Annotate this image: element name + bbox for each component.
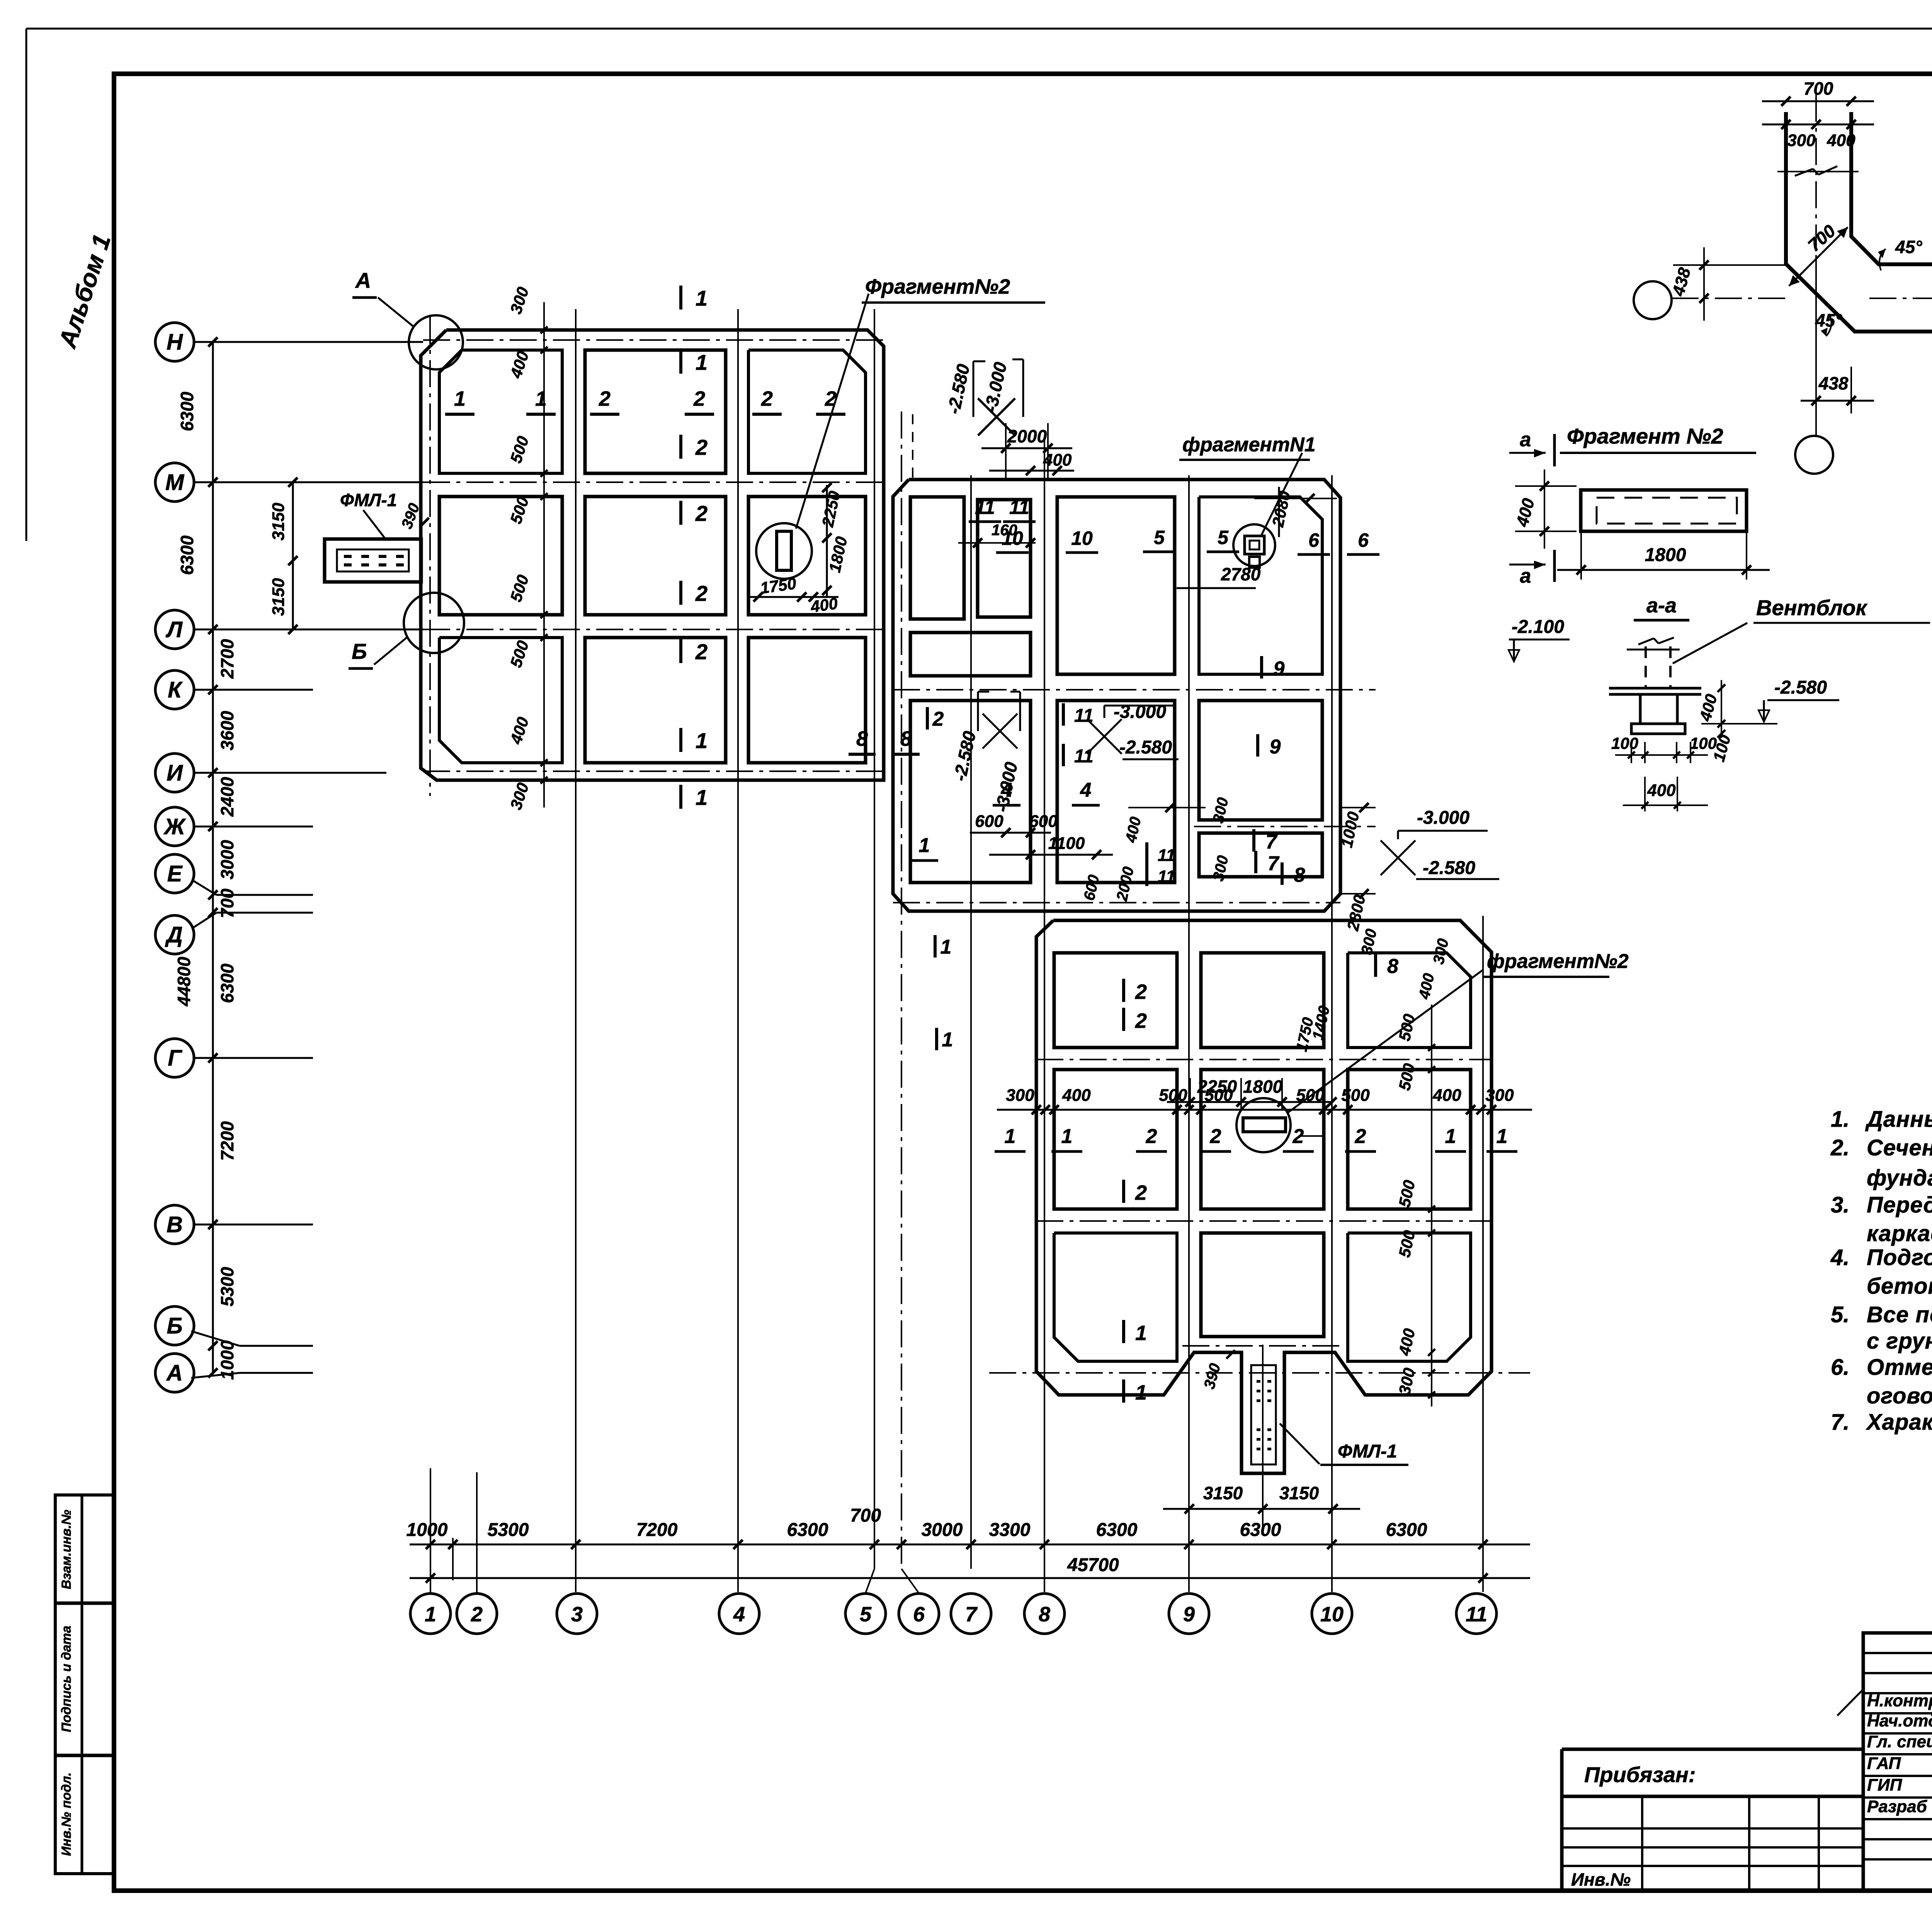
svg-text:Б: Б xyxy=(352,639,367,663)
svg-text:2: 2 xyxy=(695,639,707,664)
svg-text:5300: 5300 xyxy=(217,1267,237,1306)
svg-text:700: 700 xyxy=(850,1505,881,1526)
svg-text:2: 2 xyxy=(1146,1125,1157,1148)
svg-text:1: 1 xyxy=(1135,1381,1147,1404)
svg-text:1: 1 xyxy=(696,785,707,810)
svg-text:400: 400 xyxy=(1432,1086,1461,1105)
svg-text:а: а xyxy=(1520,565,1531,587)
svg-text:300: 300 xyxy=(1787,131,1816,150)
svg-text:Б: Б xyxy=(167,1313,182,1338)
svg-text:45700: 45700 xyxy=(1067,1555,1119,1575)
svg-text:8: 8 xyxy=(1039,1603,1050,1626)
svg-text:Сечения по фундаментам, спец: Сечения по фундаментам, спецификация эле… xyxy=(1867,1135,1932,1160)
svg-text:5: 5 xyxy=(860,1603,872,1626)
svg-text:1000: 1000 xyxy=(406,1520,448,1540)
svg-text:3: 3 xyxy=(571,1603,583,1626)
svg-text:600: 600 xyxy=(975,812,1003,831)
svg-text:438: 438 xyxy=(1818,373,1849,393)
svg-text:оговоренных.: оговоренных. xyxy=(1867,1383,1932,1408)
svg-text:6300: 6300 xyxy=(177,391,197,431)
svg-text:Гл. спец: Гл. спец xyxy=(1867,1732,1932,1751)
svg-text:6300: 6300 xyxy=(1386,1520,1427,1540)
svg-text:1800: 1800 xyxy=(1645,545,1686,565)
svg-text:2: 2 xyxy=(761,387,773,410)
svg-text:11: 11 xyxy=(1158,867,1175,886)
svg-text:К: К xyxy=(168,677,183,702)
svg-text:1: 1 xyxy=(1061,1125,1073,1148)
svg-text:2: 2 xyxy=(1293,1125,1304,1148)
svg-text:Л: Л xyxy=(165,617,183,642)
svg-text:с грунтом обмазать горячим: с грунтом обмазать горячим битумом за 2 … xyxy=(1867,1328,1932,1354)
svg-text:1: 1 xyxy=(940,936,952,958)
svg-text:Характеристики грунтов осно: Характеристики грунтов основания см АС01… xyxy=(1866,1410,1932,1435)
svg-text:1: 1 xyxy=(1135,1321,1147,1345)
svg-text:5: 5 xyxy=(1218,527,1229,548)
svg-text:500: 500 xyxy=(1159,1086,1187,1105)
svg-text:500: 500 xyxy=(1341,1086,1370,1105)
svg-text:10: 10 xyxy=(1071,527,1093,549)
svg-text:9: 9 xyxy=(1270,736,1281,758)
svg-text:фундаментов см. АС. 01-1 л.5: фундаментов см. АС. 01-1 л.5 xyxy=(1867,1165,1932,1190)
svg-text:3150: 3150 xyxy=(1279,1483,1319,1503)
svg-text:7: 7 xyxy=(965,1603,978,1626)
svg-text:5300: 5300 xyxy=(488,1520,529,1540)
svg-text:4.: 4. xyxy=(1830,1245,1849,1270)
svg-text:3.: 3. xyxy=(1831,1192,1849,1218)
svg-text:9: 9 xyxy=(1274,658,1285,680)
svg-text:1000: 1000 xyxy=(217,1340,237,1380)
svg-text:Г: Г xyxy=(168,1046,182,1071)
svg-text:2: 2 xyxy=(695,435,707,459)
svg-text:44800: 44800 xyxy=(174,957,194,1007)
svg-text:100: 100 xyxy=(1611,734,1638,752)
svg-text:4: 4 xyxy=(1080,779,1092,801)
svg-text:3150: 3150 xyxy=(269,503,288,541)
svg-text:160: 160 xyxy=(992,522,1017,539)
svg-text:8: 8 xyxy=(1294,864,1305,886)
svg-text:400: 400 xyxy=(1043,451,1072,469)
svg-text:400: 400 xyxy=(809,594,839,616)
svg-text:11: 11 xyxy=(975,497,995,518)
svg-text:Данный лист читать с АС. 0: Данный лист читать с АС. 01-1 л. 5,2 xyxy=(1865,1107,1932,1132)
svg-text:2: 2 xyxy=(932,708,944,730)
svg-text:2: 2 xyxy=(693,387,705,410)
svg-text:Фрагмент №2: Фрагмент №2 xyxy=(1567,424,1723,448)
svg-text:500: 500 xyxy=(1296,1086,1325,1105)
svg-text:Ж: Ж xyxy=(163,814,186,839)
svg-text:1800: 1800 xyxy=(1243,1077,1283,1097)
svg-text:3000: 3000 xyxy=(922,1520,963,1540)
svg-text:фрагментN1: фрагментN1 xyxy=(1182,434,1316,456)
svg-text:Нач.отд: Нач.отд xyxy=(1867,1711,1932,1730)
svg-text:5.: 5. xyxy=(1831,1302,1849,1327)
svg-text:7200: 7200 xyxy=(217,1121,237,1161)
svg-text:Инв.№ подл.: Инв.№ подл. xyxy=(59,1772,74,1856)
svg-text:ГИП: ГИП xyxy=(1867,1776,1903,1794)
svg-text:2: 2 xyxy=(1135,980,1147,1003)
svg-text:8: 8 xyxy=(856,727,868,750)
svg-text:1: 1 xyxy=(919,834,930,857)
svg-text:Перед бетонированием фундаме: Перед бетонированием фундаментов установ… xyxy=(1867,1192,1932,1218)
svg-text:-2.580: -2.580 xyxy=(1423,858,1475,878)
svg-text:2: 2 xyxy=(695,501,707,526)
svg-text:А: А xyxy=(355,268,371,293)
svg-text:2: 2 xyxy=(825,387,837,410)
svg-text:100: 100 xyxy=(1690,734,1717,752)
svg-text:400: 400 xyxy=(1647,781,1676,800)
svg-text:400: 400 xyxy=(1062,1086,1091,1105)
svg-text:1: 1 xyxy=(1005,1125,1016,1148)
svg-text:Взам.инв.№: Взам.инв.№ xyxy=(59,1510,74,1589)
svg-text:7200: 7200 xyxy=(636,1520,678,1540)
svg-text:1: 1 xyxy=(454,387,466,410)
svg-text:5: 5 xyxy=(1154,527,1165,548)
svg-text:Отметка низа фундаментов -: Отметка низа фундаментов - 2.580 , кроме xyxy=(1867,1355,1932,1380)
svg-text:6: 6 xyxy=(1308,529,1320,551)
svg-text:10: 10 xyxy=(1320,1603,1344,1626)
svg-text:Инв.№: Инв.№ xyxy=(1571,1869,1631,1889)
svg-text:Все поверхности стен техпод: Все поверхности стен техподполья , сопри… xyxy=(1867,1302,1932,1327)
svg-text:ГАП: ГАП xyxy=(1867,1754,1901,1773)
svg-text:8: 8 xyxy=(1387,955,1398,978)
svg-text:-2.100: -2.100 xyxy=(1512,617,1564,637)
svg-text:1: 1 xyxy=(1445,1125,1456,1148)
svg-text:1: 1 xyxy=(535,387,547,410)
svg-text:а: а xyxy=(1520,429,1531,451)
svg-text:7: 7 xyxy=(1266,831,1278,853)
svg-text:3600: 3600 xyxy=(217,711,237,750)
svg-text:И: И xyxy=(167,760,183,786)
svg-text:2700: 2700 xyxy=(217,639,237,679)
svg-text:2: 2 xyxy=(1210,1125,1221,1148)
svg-text:Подпись и дата: Подпись и дата xyxy=(59,1626,74,1732)
svg-text:2780: 2780 xyxy=(1221,564,1261,584)
svg-text:каркасы стен техподполья с: каркасы стен техподполья согласно АС.01-… xyxy=(1867,1221,1932,1246)
svg-text:ФМЛ-1: ФМЛ-1 xyxy=(1338,1441,1397,1462)
svg-text:фрагмент№2: фрагмент№2 xyxy=(1487,950,1629,973)
svg-text:6: 6 xyxy=(913,1603,925,1626)
svg-text:700: 700 xyxy=(1804,78,1833,99)
svg-text:6300: 6300 xyxy=(1096,1520,1138,1540)
svg-text:300: 300 xyxy=(1485,1086,1514,1105)
svg-text:1100: 1100 xyxy=(1048,834,1085,853)
svg-text:1.: 1. xyxy=(1831,1107,1849,1132)
svg-text:1: 1 xyxy=(696,286,707,310)
svg-text:6: 6 xyxy=(1358,529,1369,551)
svg-text:-2.580: -2.580 xyxy=(1119,737,1172,758)
svg-text:1: 1 xyxy=(696,350,707,374)
svg-text:-3.000: -3.000 xyxy=(1114,702,1166,722)
svg-text:3300: 3300 xyxy=(989,1520,1031,1540)
svg-text:11: 11 xyxy=(1158,846,1175,865)
svg-text:-3.000: -3.000 xyxy=(1417,808,1469,828)
svg-text:11: 11 xyxy=(1466,1603,1487,1626)
svg-text:Н: Н xyxy=(167,330,183,355)
svg-text:2: 2 xyxy=(1135,1181,1147,1204)
svg-text:Подготовка под фундаменты п: Подготовка под фундаменты принята из тяж… xyxy=(1867,1245,1932,1270)
svg-text:600: 600 xyxy=(1029,812,1058,831)
svg-text:6.: 6. xyxy=(1831,1355,1849,1380)
svg-text:Разраб: Разраб xyxy=(1867,1797,1928,1816)
svg-text:а-а: а-а xyxy=(1646,594,1677,617)
svg-text:Прибязан:: Прибязан: xyxy=(1584,1762,1696,1787)
svg-text:ФМЛ-1: ФМЛ-1 xyxy=(340,490,397,510)
svg-text:700: 700 xyxy=(217,888,237,918)
svg-text:1: 1 xyxy=(1497,1125,1508,1148)
svg-text:Фрагмент№2: Фрагмент№2 xyxy=(865,275,1010,298)
svg-text:Д: Д xyxy=(165,922,183,947)
svg-text:Н.контр: Н.контр xyxy=(1867,1691,1932,1710)
svg-text:7.: 7. xyxy=(1831,1410,1849,1435)
svg-text:1: 1 xyxy=(696,728,707,753)
svg-text:-2.580: -2.580 xyxy=(1774,677,1827,698)
svg-text:Е: Е xyxy=(167,861,183,886)
svg-text:500: 500 xyxy=(1204,1086,1233,1105)
svg-text:А: А xyxy=(166,1361,183,1386)
svg-text:2000: 2000 xyxy=(1007,426,1047,446)
svg-text:2: 2 xyxy=(695,581,707,605)
svg-text:2.: 2. xyxy=(1830,1135,1849,1160)
svg-text:бетона кл. В 3.5, δ=100мм: бетона кл. В 3.5, δ=100мм xyxy=(1867,1274,1932,1299)
svg-text:3150: 3150 xyxy=(269,578,288,616)
svg-text:Вентблок: Вентблок xyxy=(1756,595,1867,620)
svg-text:400: 400 xyxy=(1827,131,1855,150)
svg-text:3150: 3150 xyxy=(1203,1483,1243,1503)
svg-text:1: 1 xyxy=(942,1029,953,1051)
svg-text:6300: 6300 xyxy=(217,963,237,1003)
svg-text:6300: 6300 xyxy=(177,535,197,575)
svg-text:4: 4 xyxy=(733,1603,745,1626)
svg-text:11: 11 xyxy=(1009,497,1029,518)
svg-text:1: 1 xyxy=(425,1603,436,1626)
svg-text:М: М xyxy=(165,470,185,495)
svg-text:300: 300 xyxy=(1006,1086,1034,1105)
svg-text:7: 7 xyxy=(1268,852,1280,875)
svg-text:2: 2 xyxy=(1135,1009,1147,1032)
svg-text:В: В xyxy=(167,1212,183,1237)
svg-text:2: 2 xyxy=(1355,1125,1366,1148)
svg-text:2400: 2400 xyxy=(217,777,237,817)
svg-text:6300: 6300 xyxy=(787,1520,828,1540)
svg-text:9: 9 xyxy=(1183,1603,1195,1626)
svg-text:6300: 6300 xyxy=(1240,1520,1281,1540)
svg-text:3000: 3000 xyxy=(217,840,237,879)
svg-text:45°: 45° xyxy=(1815,310,1842,330)
svg-text:45°: 45° xyxy=(1895,237,1922,257)
svg-text:2: 2 xyxy=(471,1603,483,1626)
svg-text:2: 2 xyxy=(599,387,611,410)
